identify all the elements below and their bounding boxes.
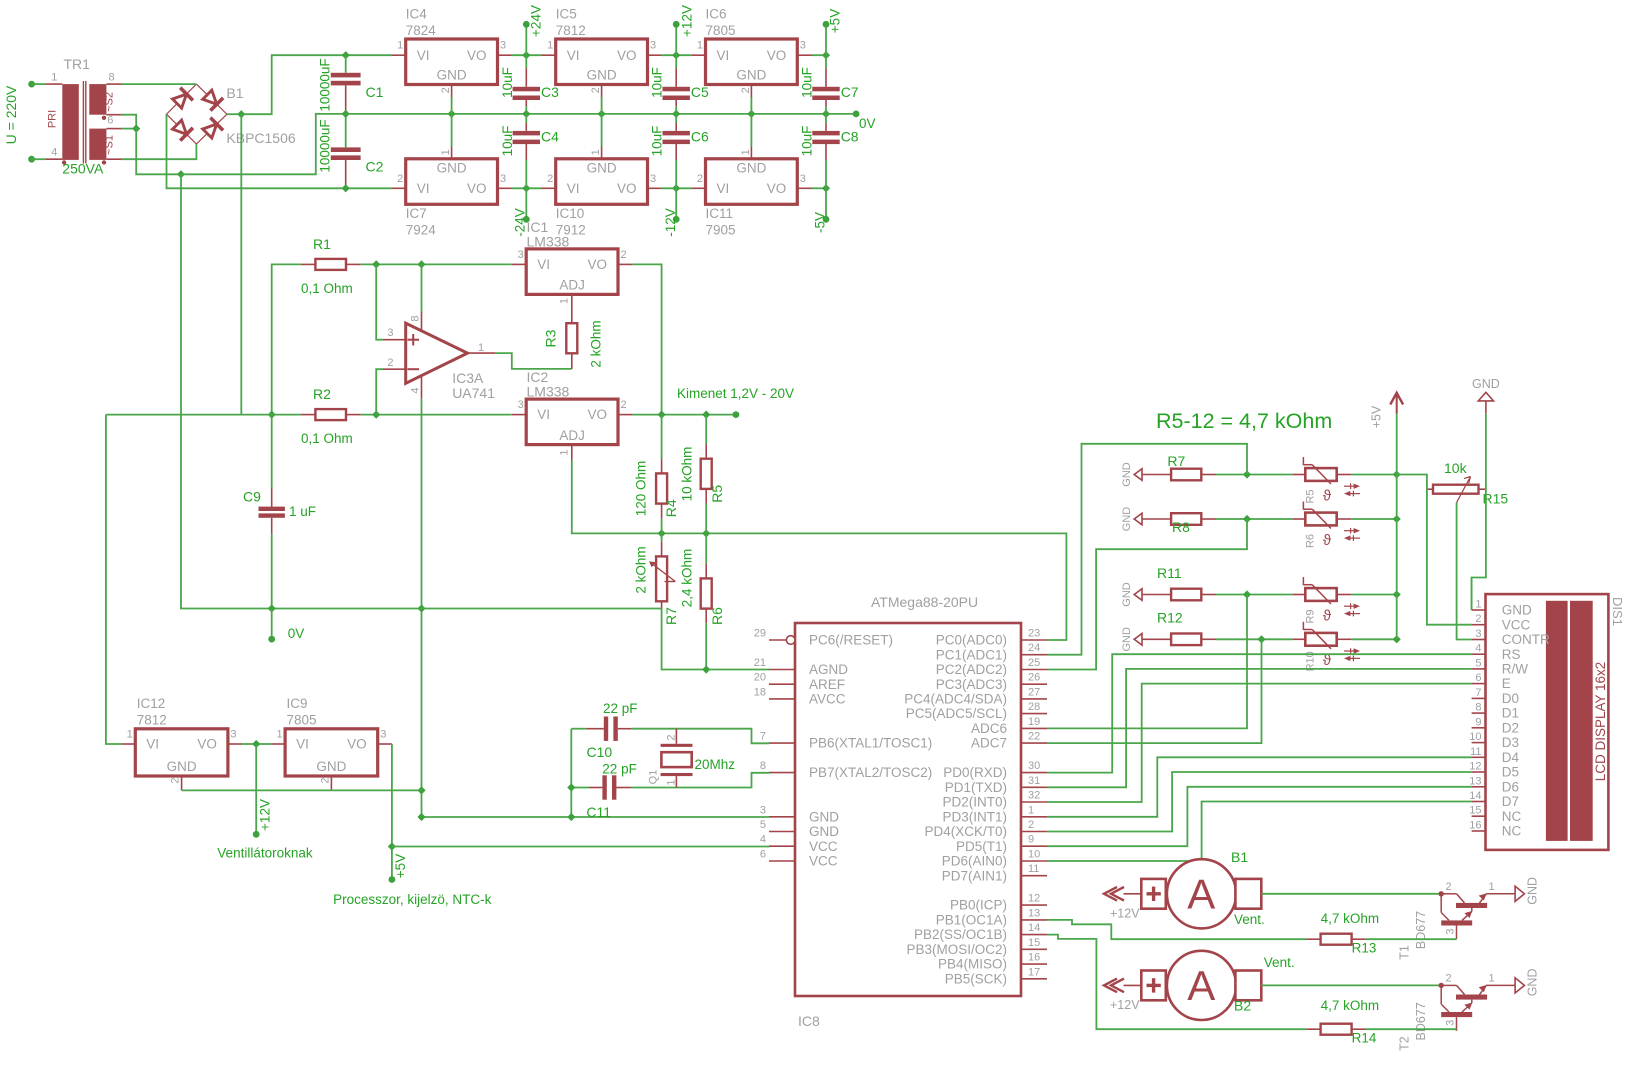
wire +5V pullups (1396, 414, 1398, 640)
svg-text:CONTR: CONTR (1502, 632, 1550, 647)
svg-text:R1: R1 (313, 236, 331, 252)
svg-text:12: 12 (1469, 761, 1481, 773)
svg-text:28: 28 (1028, 701, 1040, 713)
svg-text:2: 2 (621, 249, 627, 261)
svg-text:PB0(ICP): PB0(ICP) (950, 898, 1007, 913)
label R5-12 (1156, 409, 1332, 433)
wire -24V (525, 188, 527, 219)
label -12V (663, 208, 678, 237)
svg-text:R5: R5 (1304, 489, 1316, 503)
svg-text:2: 2 (1446, 973, 1452, 985)
label +12V fans (257, 799, 272, 831)
wire xtal gnd (570, 729, 572, 817)
label IC8 (798, 1013, 820, 1029)
svg-text:B1: B1 (226, 85, 243, 101)
capacitor C2 (331, 114, 361, 188)
svg-text:ADC7: ADC7 (971, 736, 1007, 751)
svg-text:GND: GND (736, 161, 766, 176)
label C2 (366, 159, 384, 175)
regulator IC5 7812 (542, 7, 662, 114)
svg-text:2: 2 (621, 399, 627, 411)
label R7a value (633, 546, 648, 593)
node 0V endpoint2 (268, 636, 275, 643)
label R15 value (1444, 460, 1468, 476)
svg-text:7812: 7812 (556, 23, 586, 38)
svg-text:20Mhz: 20Mhz (695, 757, 736, 772)
svg-text:23: 23 (1028, 628, 1040, 640)
svg-text:Ventillátoroknak: Ventillátoroknak (217, 846, 313, 861)
label R6a (709, 607, 725, 625)
junction R11 5v (1393, 590, 1401, 598)
svg-text:1: 1 (1028, 804, 1034, 816)
node -24V endpoint (523, 216, 530, 223)
svg-text:10000uF: 10000uF (318, 58, 333, 111)
label C6 value (650, 126, 665, 157)
svg-text:PD0(RXD): PD0(RXD) (943, 765, 1007, 780)
display DIS1 LCD 16x2 (1469, 594, 1608, 850)
label +12V B1 (1110, 907, 1140, 921)
label C8 value (800, 126, 815, 157)
svg-text:7824: 7824 (406, 23, 437, 38)
resistor R14 (1306, 1024, 1366, 1035)
svg-text:VI: VI (717, 48, 730, 63)
svg-text:6: 6 (760, 849, 766, 861)
svg-text:VO: VO (467, 181, 487, 196)
label R5a value (680, 447, 695, 502)
bridge rectifier B1 (167, 84, 227, 144)
wire ADJ line (572, 461, 1067, 640)
svg-text:E: E (1502, 676, 1511, 691)
svg-text:3: 3 (760, 804, 766, 816)
label C10 (587, 744, 613, 760)
svg-text:10uF: 10uF (800, 67, 815, 98)
svg-text:VI: VI (537, 407, 550, 422)
svg-text:NC: NC (1502, 809, 1522, 824)
label Ventillatoroknak (217, 846, 313, 861)
svg-text:VI: VI (417, 48, 430, 63)
wire +5V lcd (1397, 475, 1472, 625)
svg-text:250VA: 250VA (62, 161, 104, 177)
svg-text:IC9: IC9 (287, 696, 308, 711)
junction R8 5v (1393, 515, 1401, 523)
svg-text:3: 3 (800, 40, 806, 52)
wire R13 to T1 (1366, 938, 1457, 940)
capacitor C9 (259, 415, 285, 609)
wire ADC7 net (1047, 639, 1262, 743)
svg-text:PC4(ADC4/SDA): PC4(ADC4/SDA) (904, 692, 1007, 707)
svg-text:ADC6: ADC6 (971, 721, 1007, 736)
svg-text:VO: VO (467, 48, 487, 63)
ground T1 (1515, 886, 1524, 901)
junction +5V proc (388, 842, 396, 850)
wire R8 right (1351, 518, 1396, 520)
svg-text:7905: 7905 (706, 223, 736, 238)
svg-text:27: 27 (1028, 686, 1040, 698)
pin 8 opamp (409, 315, 421, 321)
svg-text:B1: B1 (1231, 849, 1248, 865)
svg-text:PB6(XTAL1/TOSC1): PB6(XTAL1/TOSC1) (809, 736, 932, 751)
svg-text:0V: 0V (859, 116, 876, 131)
wire 0V to AGND (662, 609, 769, 670)
wire xtal2 b (631, 773, 769, 788)
svg-text:GND: GND (587, 161, 617, 176)
svg-text:DIS1: DIS1 (1610, 597, 1625, 626)
label IC1 value (527, 234, 570, 250)
svg-text:2: 2 (740, 87, 752, 93)
svg-text:22 pF: 22 pF (603, 701, 638, 716)
wire PB1 to R13 (1047, 920, 1306, 939)
svg-text:R3: R3 (543, 329, 559, 347)
svg-text:9: 9 (1475, 716, 1481, 728)
wire opamp pin4 down (422, 399, 770, 817)
svg-text:3: 3 (650, 40, 656, 52)
pin 1 IC2 adj (558, 449, 570, 455)
svg-text:2: 2 (397, 173, 403, 185)
label R1 value (301, 281, 353, 296)
label C6 (691, 129, 709, 145)
label C4 (541, 129, 559, 145)
svg-text:7812: 7812 (137, 713, 167, 728)
junction R7 5v (1393, 470, 1401, 478)
wire E (1047, 684, 1472, 802)
wire B2 collector (1261, 984, 1441, 986)
wire R2 to IC2 (361, 414, 512, 416)
wire D5 (1047, 772, 1472, 832)
svg-text:R11: R11 (1157, 565, 1182, 581)
svg-text:R8: R8 (1172, 519, 1190, 535)
pin 1 IC1 adj (558, 298, 570, 304)
svg-text:U = 220V: U = 220V (3, 85, 19, 144)
svg-text:VI: VI (567, 48, 580, 63)
label C1 value (318, 58, 333, 111)
svg-text:31: 31 (1028, 775, 1040, 787)
svg-text:25: 25 (1028, 657, 1040, 669)
label DIS1 (1610, 597, 1625, 626)
svg-text:R7: R7 (1167, 453, 1185, 469)
label R4 (663, 499, 679, 517)
svg-text:4,7 kOhm: 4,7 kOhm (1321, 998, 1380, 1013)
svg-text:22 pF: 22 pF (602, 762, 637, 777)
wire R15 wiper (1457, 503, 1472, 640)
svg-text:1: 1 (1489, 881, 1495, 893)
wire mains L (32, 83, 46, 85)
wire R11 right (1351, 594, 1396, 596)
label C7 (841, 84, 859, 100)
junction AGND R6 (702, 665, 710, 673)
node -12V endpoint (673, 216, 680, 223)
svg-text:PC0(ADC0): PC0(ADC0) (936, 633, 1007, 648)
svg-text:IC7: IC7 (406, 206, 427, 221)
svg-text:VI: VI (146, 737, 159, 752)
node mains L endpoint (28, 81, 35, 88)
svg-text:16: 16 (1028, 952, 1040, 964)
resistor R12 (1134, 634, 1216, 646)
svg-text:8: 8 (760, 760, 766, 772)
svg-text:32: 32 (1028, 790, 1040, 802)
svg-text:0,1 Ohm: 0,1 Ohm (301, 431, 353, 446)
junction R8 (1243, 515, 1251, 523)
wire -5V (825, 188, 827, 219)
wire 0V to rail (181, 114, 346, 174)
junction adj R4 (658, 529, 666, 537)
junction C1 top (342, 51, 350, 59)
junction -24V (522, 184, 530, 192)
resistor R8 (1134, 513, 1216, 525)
svg-text:2: 2 (1475, 613, 1481, 625)
svg-text:T2: T2 (1397, 1036, 1411, 1051)
wire B1 collector (1261, 893, 1441, 895)
capacitor C7 (812, 55, 839, 114)
svg-text:VI: VI (717, 181, 730, 196)
svg-text:15: 15 (1028, 937, 1040, 949)
svg-text:Q1: Q1 (647, 770, 659, 785)
svg-text:2 kOhm: 2 kOhm (588, 320, 603, 367)
node mains N endpoint (28, 156, 35, 163)
svg-text:8: 8 (109, 72, 115, 84)
wire xtal2 (571, 787, 589, 789)
svg-text:VO: VO (587, 407, 607, 422)
wire sec5 to bridge bottom (121, 144, 196, 159)
label R13 (1352, 941, 1377, 956)
svg-text:20: 20 (754, 672, 766, 684)
wire xtal1 b (632, 729, 769, 744)
pin 1 T2 (1489, 973, 1495, 985)
supply +5V arrow (1390, 393, 1403, 414)
label -5V (812, 212, 827, 233)
svg-text:7924: 7924 (406, 223, 437, 238)
svg-text:D2: D2 (1502, 720, 1519, 735)
svg-text:1 uF: 1 uF (289, 504, 316, 519)
svg-text:120 Ohm: 120 Ohm (633, 461, 648, 517)
regulator IC9 7805 (271, 696, 392, 790)
wire unreg down left (106, 415, 121, 744)
wire sec8 to bridge top (121, 83, 196, 85)
svg-text:9: 9 (1028, 834, 1034, 846)
svg-text:D3: D3 (1502, 735, 1519, 750)
svg-text:C7: C7 (841, 84, 859, 100)
potentiometer R15 10k (1427, 477, 1486, 503)
svg-text:3: 3 (500, 173, 506, 185)
svg-text:PD3(INT1): PD3(INT1) (942, 809, 1007, 824)
svg-text:3: 3 (500, 40, 506, 52)
svg-text:ϑ: ϑ (1323, 487, 1332, 504)
wire center tap down (136, 129, 181, 175)
label C3 (541, 84, 559, 100)
svg-text:ϑ: ϑ (1323, 532, 1332, 549)
wire IC6out (812, 54, 827, 56)
pin 2 Q1 (666, 734, 678, 740)
node +24V endpoint (523, 21, 530, 28)
svg-text:2 kOhm: 2 kOhm (633, 546, 648, 593)
wire opamp pin8 (421, 264, 423, 311)
label BD677 T1 (1414, 911, 1428, 949)
svg-text:IC11: IC11 (706, 206, 734, 221)
label C11 value (602, 762, 637, 777)
svg-text:14: 14 (1028, 922, 1040, 934)
wire +5V to mcu (392, 846, 769, 848)
svg-text:3: 3 (1475, 628, 1481, 640)
label 0V rail (859, 116, 876, 131)
svg-text:-24V: -24V (512, 208, 527, 237)
svg-text:10uF: 10uF (500, 67, 515, 98)
svg-text:D5: D5 (1502, 765, 1519, 780)
svg-text:C5: C5 (691, 84, 709, 100)
svg-text:4: 4 (760, 834, 766, 846)
wire R12 right (1351, 638, 1396, 640)
svg-text:GND: GND (1525, 877, 1539, 905)
svg-text:22: 22 (1028, 731, 1040, 743)
svg-text:GND: GND (316, 759, 346, 774)
svg-text:C10: C10 (587, 744, 613, 760)
label R5a (709, 485, 725, 503)
label GND T2 (1525, 969, 1539, 997)
svg-text:BD677: BD677 (1414, 1002, 1428, 1040)
svg-text:GND: GND (437, 161, 467, 176)
svg-text:+5V: +5V (393, 854, 408, 878)
regulator IC7 7924 (392, 114, 512, 238)
wire IC9 out down (391, 744, 393, 880)
wire lcd gnd b (1471, 578, 1473, 611)
svg-text:4,7 kOhm: 4,7 kOhm (1321, 911, 1380, 926)
label R1 (313, 236, 331, 252)
label +24V (529, 5, 544, 37)
svg-text:B2: B2 (1234, 998, 1251, 1014)
label C9 value (289, 504, 316, 519)
svg-text:GND: GND (437, 68, 467, 83)
svg-text:7805: 7805 (287, 713, 317, 728)
label C10 value (603, 701, 638, 716)
label +12V (679, 5, 694, 37)
svg-text:3: 3 (518, 399, 524, 411)
label +5V proc (393, 854, 408, 878)
wire opamp minus in (376, 369, 383, 414)
resistor R11 (1134, 589, 1216, 601)
svg-text:BD677: BD677 (1414, 911, 1428, 949)
pin 2 T2 (1446, 973, 1452, 985)
svg-text:LM338: LM338 (527, 234, 570, 250)
junction R12 5v (1393, 635, 1401, 643)
wire sec7 jog (121, 115, 136, 129)
op-amp IC3A UA741 (383, 311, 496, 398)
junction +5V (822, 51, 830, 59)
svg-text:GND: GND (1525, 969, 1539, 997)
label R10 (1304, 651, 1316, 671)
svg-text:2: 2 (590, 87, 602, 93)
svg-text:VCC: VCC (809, 839, 838, 854)
svg-text:D7: D7 (1502, 794, 1519, 809)
svg-text:VCC: VCC (1502, 617, 1531, 632)
label 250VA (62, 161, 104, 177)
transformer TR1 (46, 56, 121, 165)
svg-text:1: 1 (590, 149, 602, 155)
svg-text:7: 7 (1475, 687, 1481, 699)
svg-text:D6: D6 (1502, 779, 1519, 794)
svg-text:C4: C4 (541, 129, 559, 145)
capacitor C5 (663, 55, 690, 114)
svg-text:AGND: AGND (809, 662, 848, 677)
svg-text:R14: R14 (1352, 1031, 1377, 1046)
capacitor C10 (586, 717, 632, 741)
junction +12V fans (252, 740, 260, 748)
wire +12V stub (255, 744, 257, 834)
svg-text:R5-12 = 4,7 kOhm: R5-12 = 4,7 kOhm (1156, 409, 1332, 433)
pin 1 T1 (1489, 881, 1495, 893)
svg-text:VO: VO (617, 181, 637, 196)
junction 0V C1C2 (342, 110, 350, 118)
svg-text:R7: R7 (663, 607, 679, 625)
junction out R5 (702, 411, 710, 419)
svg-text:GND: GND (1121, 582, 1133, 607)
junction xtal gnd1 (567, 783, 575, 791)
wire IC5out (662, 54, 692, 56)
svg-text:VI: VI (296, 737, 309, 752)
svg-text:GND: GND (1121, 507, 1133, 532)
svg-text:1: 1 (1475, 599, 1481, 611)
label Vent B2 (1264, 955, 1295, 970)
wire xtal1 (571, 728, 586, 730)
svg-text:13: 13 (1028, 907, 1040, 919)
svg-text:PB4(MISO): PB4(MISO) (938, 957, 1007, 972)
svg-text:-12V: -12V (663, 208, 678, 237)
wire opamp out (496, 353, 572, 369)
junction unreg plus (237, 110, 245, 118)
svg-text:3: 3 (800, 173, 806, 185)
pin 1 opamp (478, 342, 484, 354)
label B2 (1234, 998, 1251, 1014)
junction minus C2 (342, 184, 350, 192)
svg-text:16: 16 (1469, 820, 1481, 832)
svg-text:3: 3 (380, 729, 386, 741)
svg-text:10uF: 10uF (500, 126, 515, 157)
label C5 value (650, 67, 665, 98)
label KBPC1506 (226, 130, 295, 146)
thermistor R5 (1292, 457, 1360, 504)
wire bridge minus (167, 114, 392, 188)
junction opamp v8 branch (417, 260, 425, 268)
label C9 (243, 489, 261, 505)
wire IC12 to IC9 (242, 743, 271, 745)
junction 0V branch (177, 170, 185, 178)
svg-text:0V: 0V (288, 626, 305, 641)
svg-text:5: 5 (1475, 657, 1481, 669)
label C2 value (318, 119, 333, 172)
pin IC2 adj (571, 445, 573, 461)
svg-text:C1: C1 (366, 84, 384, 100)
label Processzor (333, 892, 492, 907)
junction opamp plus branch (372, 260, 380, 268)
motor B2 (1104, 951, 1261, 1020)
wire R8 mid (1216, 518, 1292, 520)
label C5 (691, 84, 709, 100)
label +12V B2 (1110, 998, 1140, 1012)
svg-text:17: 17 (1028, 966, 1040, 978)
label R2 (313, 386, 331, 402)
junction rail C7C8 (822, 110, 830, 118)
thermistor R9 (1292, 577, 1360, 624)
svg-text:+5V: +5V (1369, 405, 1383, 428)
node +12V endpoint (673, 21, 680, 28)
svg-text:PB5(SCK): PB5(SCK) (945, 971, 1007, 986)
wire sec6 (121, 128, 136, 130)
svg-text:IC12: IC12 (137, 696, 166, 711)
label GND T1 (1525, 877, 1539, 905)
svg-text:GND: GND (1502, 603, 1532, 618)
label +5V arrow (1369, 405, 1383, 428)
svg-text:1: 1 (51, 72, 57, 84)
label IC3A (452, 370, 484, 386)
svg-text:R6: R6 (1304, 534, 1316, 548)
ground R7 (1121, 462, 1133, 487)
